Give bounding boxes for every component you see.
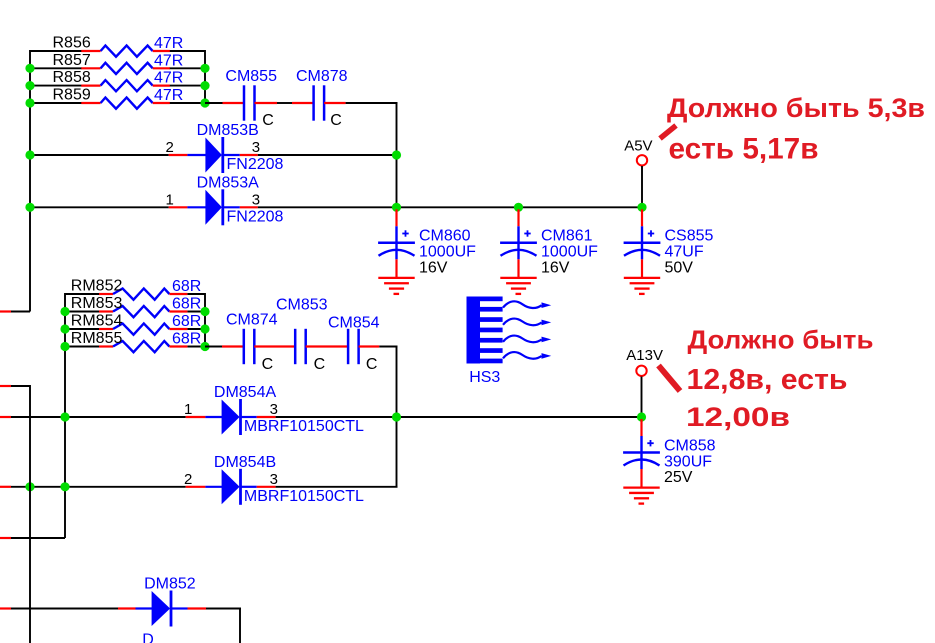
heatsink HS3 <box>467 297 503 364</box>
capacitor CM874 <box>244 329 255 364</box>
node A13V terminal circle <box>636 366 646 376</box>
wire exit left y=538 <box>0 537 65 539</box>
svg-text:C: C <box>262 356 274 373</box>
diode DM854A (MBRF10150CTL) <box>186 399 276 435</box>
wire R857 row left <box>30 67 82 69</box>
svg-text:R859: R859 <box>53 87 91 104</box>
wire left bus vertical x=30 <box>29 50 31 312</box>
svg-text:CS855: CS855 <box>665 228 714 245</box>
resistor R858 value 47R <box>81 80 170 91</box>
wire CM855 left pin <box>223 102 245 104</box>
svg-text:47R: 47R <box>154 52 183 69</box>
wire RM855 row left <box>65 346 100 348</box>
wire CM854 right pin <box>359 345 380 347</box>
svg-text:Должно быть 5,3в: Должно быть 5,3в <box>667 93 925 123</box>
wire red stub left DM852 row <box>0 607 11 609</box>
svg-text:CM860: CM860 <box>419 228 471 245</box>
junction x=65 DM854B row <box>60 482 69 491</box>
svg-text:MBRF10150CTL: MBRF10150CTL <box>244 488 364 505</box>
wire right vertical of RM bank <box>204 293 206 347</box>
wire R858 row left <box>30 85 82 87</box>
svg-text:RM855: RM855 <box>71 330 123 347</box>
svg-text:68R: 68R <box>172 278 201 295</box>
capacitor CM878 <box>314 85 325 120</box>
heatsink airflow arrow <box>503 336 551 343</box>
capacitor CM855 <box>244 85 255 120</box>
wire RM854 row right <box>187 328 205 330</box>
ground of CM860 <box>378 278 414 294</box>
svg-text:RM853: RM853 <box>71 295 123 312</box>
wire RM852 row right <box>187 293 205 295</box>
resistor RM854 value 68R <box>99 324 187 335</box>
capacitor CM860 lead <box>395 209 397 259</box>
wire CM853-CM854 <box>306 345 348 347</box>
svg-text:CM853: CM853 <box>276 297 328 314</box>
junction left bus RM <box>60 307 69 316</box>
svg-text:D: D <box>142 632 154 643</box>
svg-text:DM854B: DM854B <box>214 454 276 471</box>
svg-text:CM854: CM854 <box>328 315 380 332</box>
svg-text:FN2208: FN2208 <box>227 156 284 173</box>
svg-text:R857: R857 <box>53 52 91 69</box>
svg-text:R858: R858 <box>53 69 91 86</box>
svg-text:C: C <box>262 112 274 129</box>
svg-text:47R: 47R <box>154 87 183 104</box>
svg-text:1000UF: 1000UF <box>419 244 476 261</box>
annotation pointer stroke A13V <box>659 366 681 392</box>
svg-text:DM852: DM852 <box>144 576 196 593</box>
svg-text:12,8в, есть: 12,8в, есть <box>687 364 848 396</box>
junction left bus <box>25 64 34 73</box>
resistor R856 value 47R <box>81 46 170 57</box>
svg-text:DM853A: DM853A <box>197 175 260 192</box>
node A5V terminal circle <box>637 155 647 165</box>
wire DM853A row left <box>30 206 169 208</box>
svg-text:RM852: RM852 <box>71 278 123 295</box>
wire RM854 row left <box>65 328 100 330</box>
wire RM853 row left <box>65 311 100 313</box>
wire R856 row right <box>169 50 205 52</box>
wire right vertical x=396.5 lower <box>396 347 398 487</box>
wire R858 row right <box>169 85 205 87</box>
wire RM853 row right <box>187 311 205 313</box>
svg-text:HS3: HS3 <box>469 369 500 386</box>
wire left bus vertical x=65 <box>64 293 66 538</box>
svg-text:16V: 16V <box>419 260 448 277</box>
junction left bus <box>25 81 34 90</box>
svg-text:A13V: A13V <box>626 347 663 364</box>
wire CM874 left pin <box>222 345 244 347</box>
capacitor CM861 lead <box>517 209 519 259</box>
wire red stub left DM854A row <box>0 416 11 418</box>
wire DM854A row right to A13V node <box>276 416 642 418</box>
svg-text:FN2208: FN2208 <box>227 209 284 226</box>
svg-text:2: 2 <box>184 471 192 488</box>
wire red stub left DM854B row <box>0 486 11 488</box>
capacitor CM858 symbol <box>623 440 660 488</box>
capacitor CS855 lead <box>641 209 643 259</box>
wire DM854A row left <box>11 416 186 418</box>
diode DM853B (FN2208) <box>169 137 258 173</box>
svg-text:C: C <box>314 356 326 373</box>
junction x=396.5 DM854A row <box>392 412 401 421</box>
diode DM852 (None) <box>118 591 206 627</box>
wire exit left at y=311.5 <box>0 311 30 313</box>
junction left bus RM <box>60 324 69 333</box>
svg-text:MBRF10150CTL: MBRF10150CTL <box>244 418 364 435</box>
junction right bus <box>200 64 209 73</box>
resistor R857 value 47R <box>81 63 170 74</box>
wire DM853A row right to A5V node <box>258 206 642 208</box>
svg-text:47R: 47R <box>154 35 183 52</box>
wire A5V vertical <box>641 166 643 207</box>
svg-text:50V: 50V <box>665 260 694 277</box>
junction left bus RM <box>60 342 69 351</box>
svg-text:25V: 25V <box>664 469 693 486</box>
svg-text:есть 5,17в: есть 5,17в <box>669 132 819 165</box>
svg-text:CM858: CM858 <box>664 437 716 454</box>
junction A5V to rail <box>637 203 646 212</box>
junction x=30 DM854B row <box>25 482 34 491</box>
heatsink airflow arrow <box>503 301 551 308</box>
wire DM854B row right <box>276 486 398 488</box>
svg-text:DM853B: DM853B <box>197 122 259 139</box>
wire R859 row left <box>30 102 82 104</box>
junction right bus RM <box>200 342 209 351</box>
ground of CM861 <box>500 278 536 294</box>
wire to right corner RM <box>379 346 397 348</box>
ground of CM858 <box>623 488 659 504</box>
wire DM854B row left <box>11 486 186 488</box>
heatsink airflow arrow <box>503 352 551 359</box>
svg-text:3: 3 <box>270 401 278 418</box>
wire DM853B row left <box>30 154 169 156</box>
capacitor CM853 <box>295 329 306 364</box>
diode DM853A (FN2208) <box>169 189 258 225</box>
wire to CM874 <box>205 346 222 348</box>
wire vertical x=240 to bottom <box>239 608 241 643</box>
wire DM852 row right <box>206 608 241 610</box>
wire R859 row right <box>169 102 205 104</box>
svg-text:3: 3 <box>252 139 260 156</box>
wire DM852 row left <box>11 608 118 610</box>
capacitor CM861 symbol <box>500 230 537 278</box>
wire CM874-CM853 <box>254 345 295 347</box>
wire R857 row right <box>169 67 205 69</box>
svg-text:CM874: CM874 <box>226 312 278 329</box>
svg-text:1000UF: 1000UF <box>541 244 598 261</box>
wire between CM855 and CM878 <box>277 102 292 104</box>
wire DM853B row right <box>258 154 397 156</box>
wire CM878 left pin <box>292 102 314 104</box>
svg-text:12,00в: 12,00в <box>686 402 790 432</box>
junction x=396.5 DM853B row <box>392 150 401 159</box>
svg-text:RM854: RM854 <box>71 313 123 330</box>
svg-text:CM855: CM855 <box>225 68 277 85</box>
svg-text:Должно быть: Должно быть <box>688 325 874 355</box>
wire to right corner <box>346 102 398 104</box>
svg-text:1: 1 <box>184 401 192 418</box>
svg-text:3: 3 <box>252 192 260 209</box>
svg-text:68R: 68R <box>172 296 201 313</box>
ground of CS855 <box>624 278 660 294</box>
wire exit left y=386 <box>0 385 30 387</box>
wire right vertical x=396.5 top <box>396 103 398 207</box>
svg-text:3: 3 <box>270 471 278 488</box>
junction left bus <box>25 98 34 107</box>
annotation pointer stroke A5V <box>660 126 676 139</box>
wire CM855 right pin <box>255 102 278 104</box>
svg-text:68R: 68R <box>172 331 201 348</box>
capacitor CM858 lead <box>640 419 642 469</box>
capacitor CM860 symbol <box>378 230 415 278</box>
junction right bus <box>200 98 209 107</box>
wire red stub left y=386 <box>0 385 11 387</box>
junction right bus RM <box>200 324 209 333</box>
resistor RM853 value 68R <box>99 306 187 317</box>
junction right bus <box>200 81 209 90</box>
resistor RM852 value 68R <box>99 289 187 300</box>
junction right bus RM <box>200 307 209 316</box>
svg-text:1: 1 <box>166 192 174 209</box>
svg-text:C: C <box>366 356 378 373</box>
wire RM852 row left <box>65 293 100 295</box>
svg-text:CM878: CM878 <box>296 68 348 85</box>
svg-text:DM854A: DM854A <box>214 384 277 401</box>
svg-text:16V: 16V <box>541 260 570 277</box>
junction x=30 DM853B row <box>25 150 34 159</box>
svg-text:390UF: 390UF <box>664 453 712 470</box>
wire A13V vertical <box>641 377 643 418</box>
svg-text:C: C <box>330 112 342 129</box>
capacitor CS855 symbol <box>624 230 661 278</box>
wire right vertical of top bank <box>204 50 206 103</box>
wire to CM855 <box>205 102 223 104</box>
svg-text:2: 2 <box>166 139 174 156</box>
resistor RM855 value 68R <box>99 341 187 352</box>
wire R856 row left <box>30 50 82 52</box>
svg-text:47R: 47R <box>154 70 183 87</box>
resistor R859 value 47R <box>81 98 170 109</box>
svg-text:47UF: 47UF <box>665 244 704 261</box>
junction x=396.5 DM853A row <box>392 203 401 212</box>
junction x=65 DM854A row <box>60 412 69 421</box>
svg-text:68R: 68R <box>172 313 201 330</box>
wire red stub left y=538 <box>0 537 11 539</box>
capacitor CM854 <box>348 329 359 364</box>
junction CM861 <box>514 203 523 212</box>
svg-text:CM861: CM861 <box>541 228 593 245</box>
heatsink airflow arrow <box>503 319 551 326</box>
wire RM855 row right <box>187 346 205 348</box>
wire red stub left y=311.5 <box>0 310 11 312</box>
svg-text:R856: R856 <box>53 35 91 52</box>
junction A13V to rail <box>637 412 646 421</box>
diode DM854B (MBRF10150CTL) <box>186 469 276 505</box>
svg-text:A5V: A5V <box>624 138 652 155</box>
junction x=30 DM853A row <box>25 203 34 212</box>
wire left vertical x=30 lower <box>29 385 31 643</box>
wire CM878 right pin <box>324 102 346 104</box>
